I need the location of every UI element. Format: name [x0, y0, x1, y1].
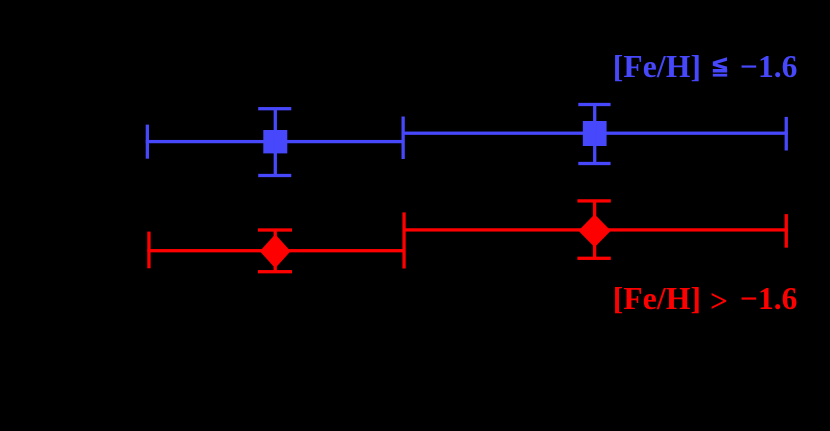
blue middle cap: [402, 117, 405, 160]
svg-text:−1.6: −1.6: [740, 281, 797, 316]
red right cap: [785, 214, 788, 248]
red vertical errorbar point 1: [274, 230, 277, 272]
red bottom cap point 2: [577, 257, 610, 260]
blue vertical errorbar point 1: [274, 109, 277, 176]
red top cap point 1: [258, 228, 292, 231]
red top cap point 2: [577, 199, 610, 202]
red diamond marker point 2: [578, 214, 610, 247]
svg-text:[Fe/H]: [Fe/H]: [613, 281, 701, 316]
blue horizontal errorbar line point 1: [146, 140, 404, 143]
blue less-than-over-equal symbol: [713, 57, 727, 76]
red left cap: [147, 232, 150, 269]
blue square marker point 1: [263, 130, 287, 153]
blue series [Fe/H] <= -1.6: [146, 103, 788, 177]
svg-text:[Fe/H]: [Fe/H]: [613, 49, 701, 84]
blue horizontal errorbar line point 2: [403, 132, 788, 135]
svg-text:>: >: [710, 284, 728, 319]
red middle cap: [402, 212, 405, 268]
red horizontal errorbar line point 2: [404, 228, 788, 231]
blue top cap point 1: [258, 107, 291, 110]
blue bottom cap point 2: [578, 162, 610, 165]
red diamond marker point 1: [260, 234, 291, 268]
blue right cap: [785, 117, 788, 151]
blue square marker point 2: [583, 121, 607, 146]
blue top cap point 2: [578, 103, 610, 106]
red series [Fe/H] > -1.6: [147, 199, 788, 273]
red horizontal errorbar line point 1: [147, 249, 404, 252]
red bottom cap point 1: [258, 270, 292, 273]
blue vertical errorbar point 2: [593, 105, 596, 164]
blue bottom cap point 1: [258, 174, 291, 177]
red vertical errorbar point 2: [593, 201, 596, 258]
svg-text:−1.6: −1.6: [740, 49, 797, 84]
blue left cap: [146, 125, 149, 159]
